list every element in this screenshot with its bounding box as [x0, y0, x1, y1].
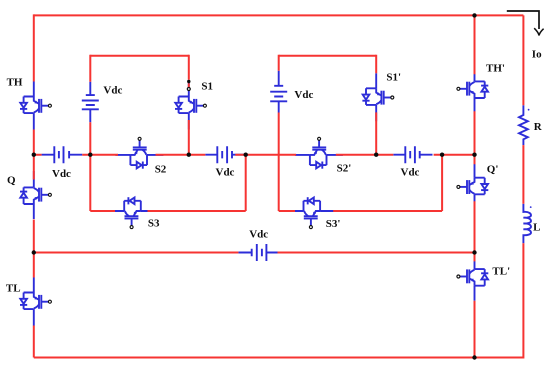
wire left leg [33, 14, 35, 357]
node cell1 battery/bus1 [88, 153, 92, 157]
wire bus2 [34, 252, 475, 254]
wire cell1 S1 leg [188, 55, 190, 155]
wire load branch [522, 15, 524, 358]
transistor TL' [457, 253, 488, 301]
battery Vdc bus1-right (horizontal) [393, 146, 432, 163]
svg-text:Vdc: Vdc [249, 228, 268, 240]
transistor S1' [362, 73, 393, 121]
svg-text:TH: TH [7, 76, 23, 88]
svg-text:Q': Q' [487, 163, 499, 175]
node right leg/bus2 [472, 250, 476, 254]
wire bus1 [34, 154, 475, 156]
node S1 drain ring [187, 88, 190, 91]
svg-text:Q: Q [7, 174, 16, 186]
wire cell1 top rail [90, 55, 189, 57]
transistor S2 [115, 137, 163, 168]
wire Io annotation [507, 11, 539, 29]
node S1 leg/bus1 [187, 153, 191, 157]
node right leg/top rail [472, 13, 476, 17]
wire S3 loop [90, 155, 245, 211]
wire cell2 battery leg [278, 55, 280, 211]
wire bottom rail [34, 357, 524, 359]
node right leg/bottom rail [472, 355, 476, 359]
transistor TL [20, 278, 51, 326]
node S1 drain dot [187, 80, 190, 83]
wire cell1 battery leg [89, 55, 91, 211]
node right leg/bus1 [472, 153, 476, 157]
transistor TH' [457, 65, 488, 113]
svg-text:S1: S1 [201, 80, 213, 92]
svg-text:S3': S3' [326, 218, 341, 230]
wire cell2 top rail [279, 55, 377, 57]
svg-text:Vdc: Vdc [294, 89, 313, 101]
transistor Q [20, 171, 51, 219]
battery Vdc bus1-mid (horizontal) [205, 146, 243, 163]
svg-text:TH': TH' [486, 62, 505, 74]
transistor S1 [175, 82, 206, 130]
node bus2 left [32, 250, 36, 254]
Io arrowhead [534, 28, 543, 35]
svg-text:S1': S1' [386, 71, 401, 83]
battery Vdc bus2 (horizontal, mirrored) [238, 244, 277, 261]
node S3 tap/bus1 [244, 153, 248, 157]
transistor S3' [287, 197, 335, 228]
battery Vdc cell1 (vertical, x=90.3) [82, 82, 99, 122]
wire top rail [34, 14, 524, 16]
svg-text:S3: S3 [148, 217, 160, 229]
wire S3' loop [279, 155, 442, 211]
svg-text:S2: S2 [155, 163, 167, 175]
svg-text:TL: TL [6, 282, 21, 294]
svg-text:Vdc: Vdc [401, 167, 420, 179]
wire right leg [474, 15, 476, 357]
svg-text:Vdc: Vdc [103, 85, 122, 97]
transistor TH [20, 82, 51, 130]
svg-text:L: L [533, 222, 540, 234]
battery Vdc bus1-left (horizontal) [42, 146, 83, 163]
svg-text:R: R [534, 121, 543, 133]
svg-text:Vdc: Vdc [216, 167, 235, 179]
svg-text:S2': S2' [337, 162, 352, 174]
transistor Q' [457, 163, 488, 211]
transistor S2' [295, 137, 343, 168]
transistor S3 [108, 197, 156, 228]
node bus1 left [32, 153, 36, 157]
inductor L [523, 204, 531, 243]
wire cell2 S1' leg [375, 55, 377, 155]
resistor R [519, 105, 529, 145]
node S3' tap/bus1 [440, 153, 444, 157]
svg-text:Io: Io [532, 49, 542, 61]
svg-text:TL': TL' [492, 265, 510, 277]
node S1' leg/bus1 [374, 153, 378, 157]
battery Vdc cell2 (vertical, x=278.7) [270, 71, 287, 113]
svg-text:Vdc: Vdc [52, 168, 71, 180]
